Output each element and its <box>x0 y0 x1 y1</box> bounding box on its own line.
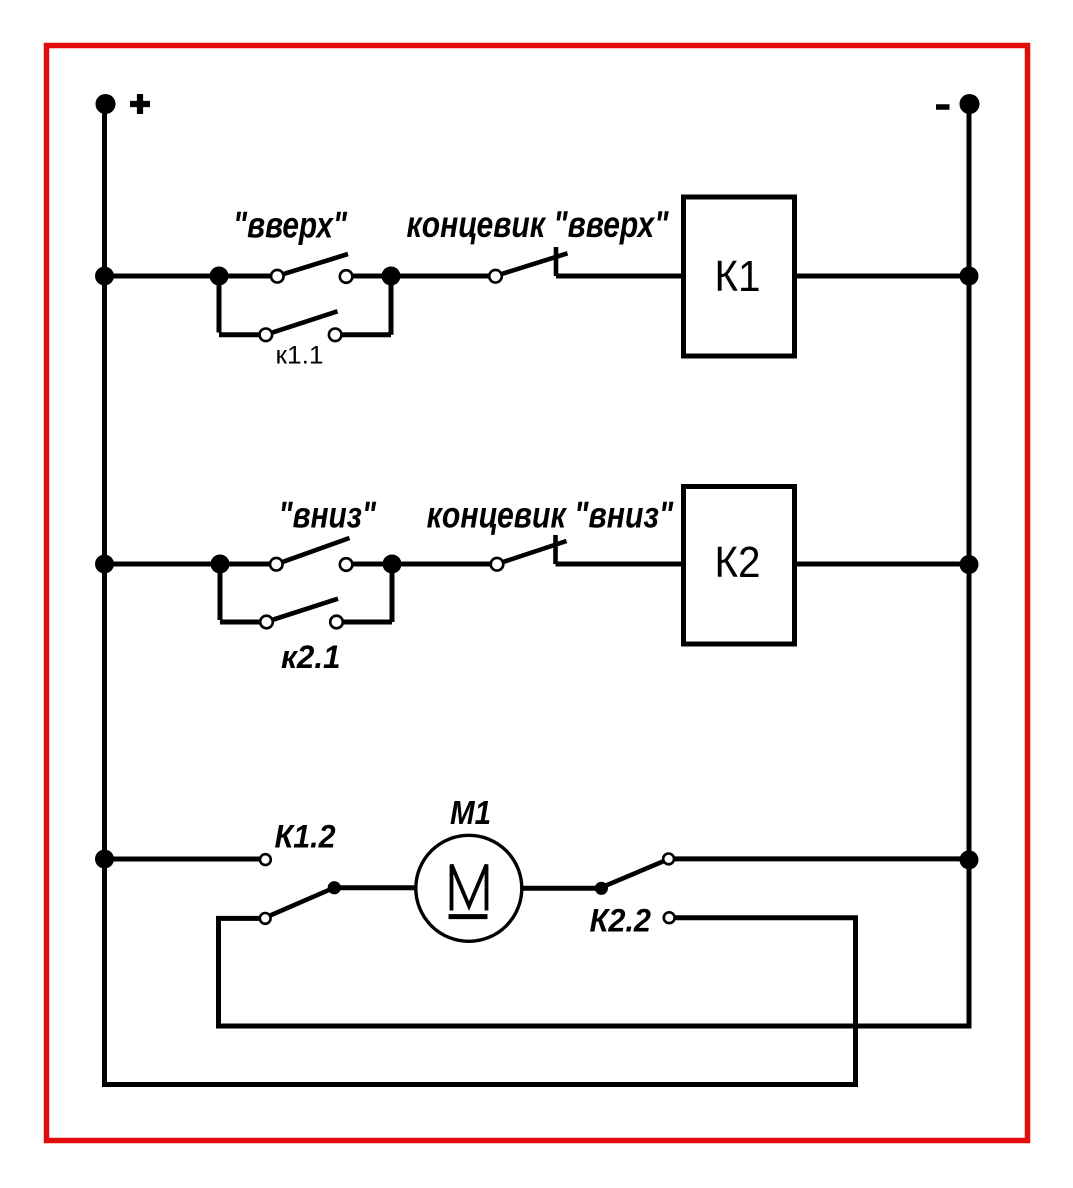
wire motor right <box>522 886 602 891</box>
wire right - rail <box>219 104 970 1026</box>
svg-text:концевик "вниз": концевик "вниз" <box>427 495 674 536</box>
contact K2.1 parallel branch <box>220 564 392 628</box>
relay coil K2 <box>684 487 795 645</box>
node junction row1 at - rail <box>960 267 979 286</box>
node + terminal dot <box>96 94 116 114</box>
node junction row2 at - rail <box>960 555 979 574</box>
contact K1.1 parallel branch <box>219 276 391 341</box>
switch "вверх" button SB1 <box>271 254 352 283</box>
node junction row1 left <box>210 267 229 286</box>
limit switch "вверх" SQ1 <box>489 247 567 283</box>
svg-text:К2.2: К2.2 <box>590 903 652 939</box>
node junction row2 right <box>383 555 402 574</box>
wire row2 from + rail <box>105 562 272 567</box>
node junction row1 right <box>382 267 401 286</box>
svg-text:"вверх": "вверх" <box>233 205 347 246</box>
wire row1 to K1 <box>556 274 681 279</box>
node junction row1 at + rail <box>95 267 114 286</box>
wire row1 from + rail <box>105 274 272 279</box>
wire row3 to - rail <box>674 856 969 861</box>
svg-text:К1.2: К1.2 <box>275 819 336 855</box>
limit switch "вниз" SQ2 <box>491 535 567 571</box>
switch "вниз" button SB2 <box>270 538 352 571</box>
wire row3 from + rail <box>105 857 261 862</box>
svg-text:M1: M1 <box>450 794 491 831</box>
wire row2 to K2 <box>556 562 682 567</box>
svg-text:к1.1: к1.1 <box>276 342 324 370</box>
node junction row3 at - rail <box>960 850 979 869</box>
relay coil K1 <box>684 197 795 356</box>
contact K2.2 changeover <box>595 854 675 924</box>
plus label <box>130 94 150 114</box>
svg-text:концевик "вверх": концевик "вверх" <box>407 204 669 245</box>
svg-text:к2.1: к2.1 <box>281 639 341 675</box>
node junction row2 at + rail <box>95 555 114 574</box>
node junction row3 at + rail <box>95 850 114 869</box>
wire row1 mid <box>353 274 490 279</box>
minus label <box>936 104 950 110</box>
wire row2 mid <box>353 562 491 567</box>
svg-text:"вниз": "вниз" <box>279 495 377 536</box>
wire left + rail <box>105 104 856 1085</box>
wire row1 to - rail <box>797 274 969 279</box>
contact K1.2 changeover <box>260 854 341 924</box>
motor M1 <box>416 835 522 941</box>
wire motor left <box>334 885 416 890</box>
svg-text:К2: К2 <box>715 538 761 587</box>
node - terminal dot <box>960 94 980 114</box>
svg-text:К1: К1 <box>715 252 761 301</box>
node junction row2 left <box>211 555 230 574</box>
wire row2 to - rail <box>797 562 969 567</box>
